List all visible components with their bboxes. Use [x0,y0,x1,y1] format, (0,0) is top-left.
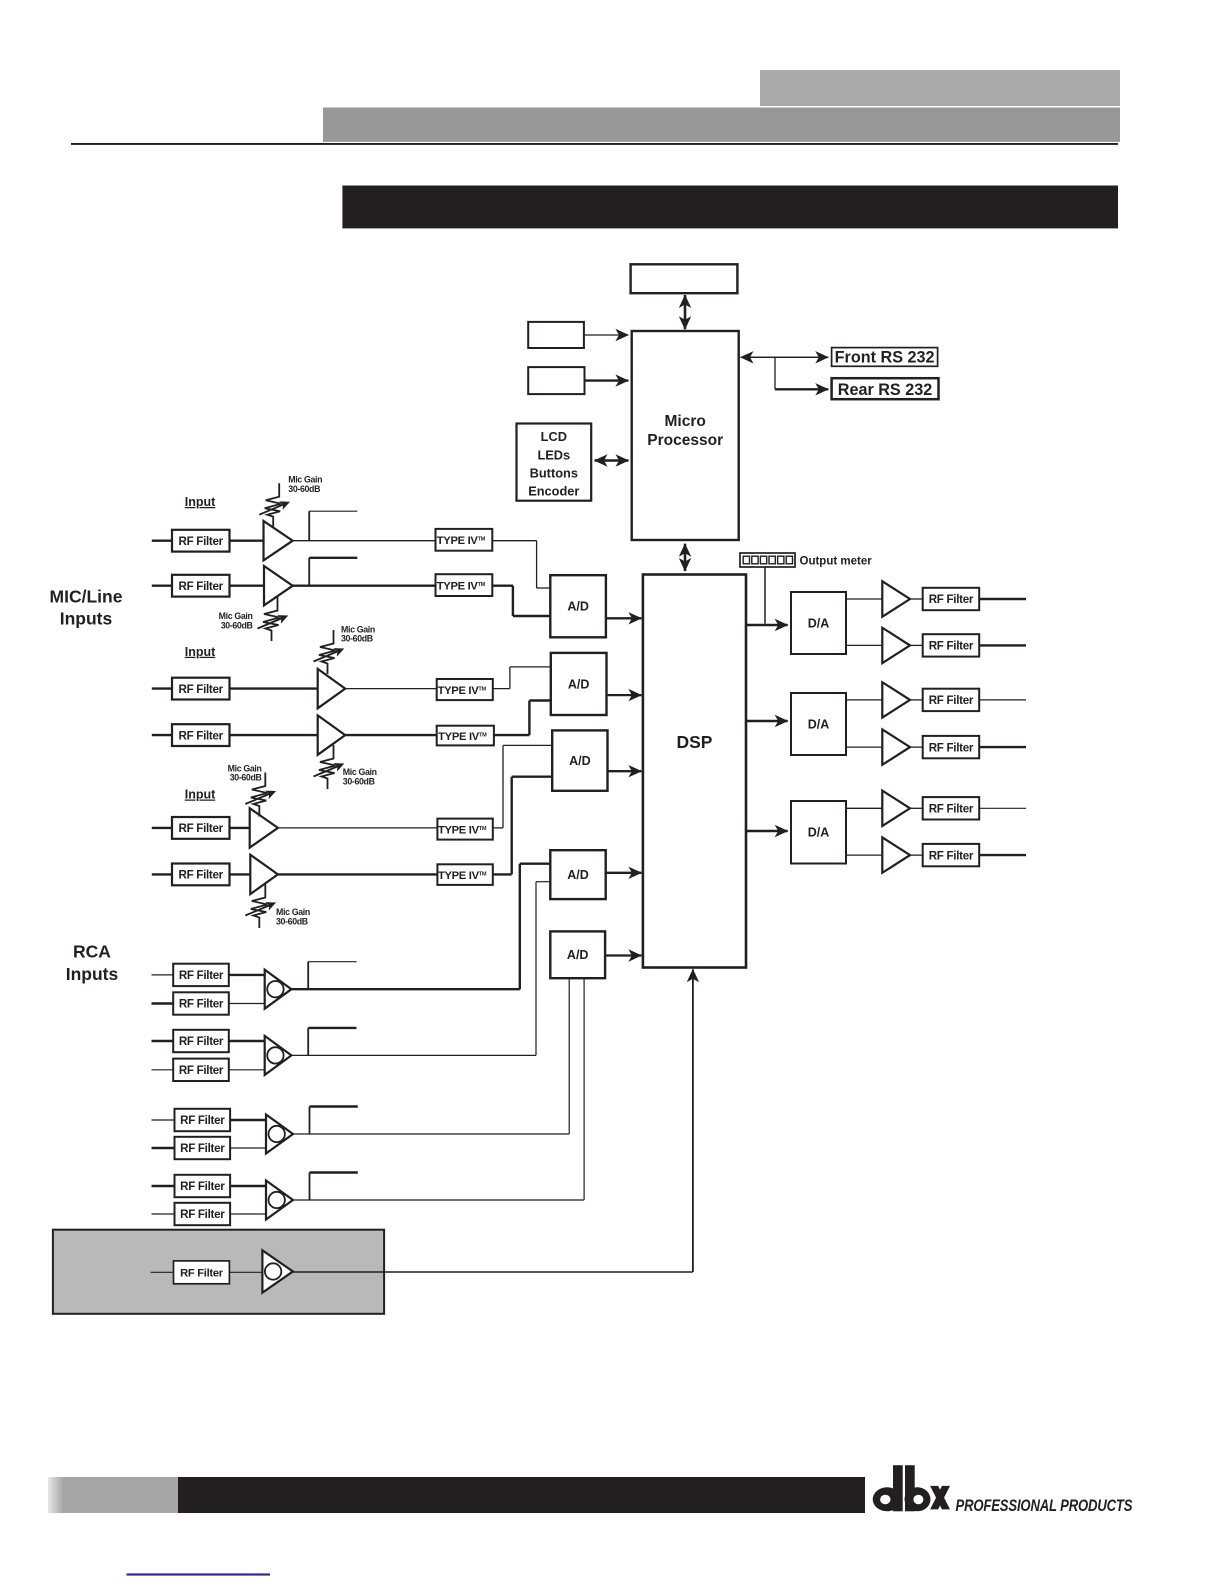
block: A/D converter 4 [550,850,605,899]
amp: output amplifier row 4 [882,729,910,764]
amp circle: RCA summing amp 3 [269,1126,285,1142]
svg-text:Input: Input [185,645,216,659]
pot: mic gain row 3 [314,630,343,674]
svg-text:RF Filter: RF Filter [180,1180,225,1193]
amp Q6: mic preamp row 6 [250,855,278,894]
svg-text:30-60dB: 30-60dB [288,484,320,494]
wire: A/D 3 to DSP arrow [608,770,642,772]
wire: insert stub horizontal RCA 4 [310,1171,358,1173]
svg-text:A/D: A/D [567,948,589,962]
block: TYPE IV converter row 2 [436,574,493,596]
block: RF Filter mic row 1 [172,530,230,552]
block: RF Filter RCA 2B [173,1059,229,1081]
wire: TYPE IV 1 out [492,540,536,542]
wire: output line row 6 [979,854,1026,856]
block: D/A converter 1 [791,592,846,654]
amp Q4: mic preamp row 4 [318,715,346,754]
wire: expansion input stub [151,1271,174,1273]
block: TYPE IV converter row 1 [436,529,493,551]
block: RF Filter RCA 3B [175,1137,231,1159]
amp circle: RCA summing amp 2 [267,1047,283,1063]
wire: RCA input stub 3B [152,1147,175,1149]
wire: DSP to D/A 1 arrow [746,624,788,626]
wire: insert stub horizontal RCA 1 [308,961,356,963]
wire: amp to RF filter row 6 [910,854,923,856]
logo: dbx b stem [905,1465,915,1511]
wire: insert stub vertical row 1 [308,511,310,541]
header medium gray bar [323,108,1120,142]
block: output RF Filter row 6 [923,844,980,866]
block: output RF Filter row 4 [923,736,980,758]
svg-text:RF Filter: RF Filter [929,593,974,606]
svg-text:A/D: A/D [569,754,591,768]
wire: insert stub horizontal row 1 [309,510,357,512]
amp: output amplifier row 3 [882,682,910,717]
wire: RCA 3 output vertical [568,978,570,1134]
wire: RCA 3B to summing amp [230,1147,266,1149]
footer black bar [178,1477,865,1513]
amp: output amplifier row 1 [882,581,910,616]
svg-text:30-60dB: 30-60dB [221,620,253,630]
wire: D/A to output amp row 1 [846,598,882,600]
wire: insert stub vertical RCA 3 [309,1107,311,1135]
wire: RCA 1A to summing amp [229,974,265,976]
wire: RCA 2 into A/D 4 [536,881,550,883]
block: TYPE IV converter row 6 [437,864,492,885]
wire: TYPE IV 5 out [493,827,503,829]
block: RF Filter RCA 4B [175,1203,231,1225]
svg-text:Buttons: Buttons [530,466,578,481]
pot: mic gain row 1 [259,483,288,527]
svg-text:LEDs: LEDs [537,448,570,463]
svg-text:RF Filter: RF Filter [179,822,224,835]
block: RF Filter RCA 1A [173,964,229,986]
wire: insert stub horizontal row 2 [309,557,357,559]
block: output RF Filter row 2 [923,634,980,656]
svg-text:30-60dB: 30-60dB [341,634,373,644]
block: Rear RS 232 [832,378,939,399]
wire: insert stub vertical row 2 [308,558,310,586]
wire: amp to TYPE IV row 4 [345,734,437,736]
amp: output amplifier row 2 [882,628,910,663]
block: RF Filter mic row 2 [172,575,230,597]
wire: TYPE IV 6 out [493,873,512,875]
wire: RS232 fork vertical [774,357,776,389]
wire: D/A to output amp row 4 [846,746,882,748]
wire: RCA 2 output [291,1054,536,1056]
wire: mic input stub row 1 [152,540,172,542]
wire: A/D 1 to DSP arrow [606,617,642,619]
svg-text:RF Filter: RF Filter [179,1035,224,1048]
svg-text:A/D: A/D [567,600,589,614]
svg-text:30-60dB: 30-60dB [276,917,308,927]
wire: RCA 3 output [293,1133,569,1135]
header black title bar [342,186,1118,229]
wire: RCA 4B to summing amp [230,1213,266,1215]
wire: RCA input stub 4A [152,1185,175,1187]
svg-text:RF Filter: RF Filter [929,849,974,862]
block: RF Filter RCA 1B [173,992,229,1014]
block: D/A converter 3 [791,801,846,864]
wire: RCA 4 output [293,1199,584,1201]
amp Q1: mic preamp row 1 [264,521,293,560]
svg-text:Input: Input [185,788,216,802]
wire: insert stub vertical RCA 1 [307,962,309,990]
svg-text:RF Filter: RF Filter [179,1064,224,1077]
wire: TYPE IV 4 out [494,734,530,736]
wire: RCA input stub 2B [152,1069,174,1071]
wire: A/D 2 to DSP arrow [607,694,642,696]
wire: expansion output [293,1271,693,1273]
wire: amp to RF filter row 4 [910,746,923,748]
svg-text:Encoder: Encoder [528,484,579,499]
wire: MP to DSP double arrow [684,544,687,571]
amp Q5: mic preamp row 5 [250,808,278,847]
block: RF Filter mic row 3 [172,678,230,700]
block: D/A converter 2 [791,693,846,755]
amp: RCA summing amp 4 [266,1181,293,1220]
wire: amp to TYPE IV row 1 [293,540,436,542]
logo: dbx d stem [893,1465,903,1511]
wire: RCA 1 output [291,988,519,990]
wire: RF filter to amp row 2 [230,585,265,587]
block: RF Filter RCA 3A [175,1109,231,1131]
wire: RCA 2 output vertical [535,882,537,1056]
svg-text:Inputs: Inputs [66,964,119,984]
svg-text:DSP: DSP [677,732,713,752]
wire: expansion RF to amp [229,1271,262,1273]
amp Q3: mic preamp row 3 [318,669,346,708]
block: top memory rectangle (unlabeled) [631,264,738,293]
svg-text:RCA: RCA [73,942,111,962]
amp circle: RCA summing amp 4 [269,1192,285,1208]
amp: output amplifier row 6 [882,837,910,872]
wire: amp to RF filter row 5 [910,807,923,809]
block: A/D converter 5 [550,931,605,978]
wire: amp to RF filter row 2 [910,644,923,646]
wire: RCA 4A to summing amp [230,1185,266,1187]
wire: mic input stub row 3 [152,687,172,689]
wire: RCA 3A to summing amp [230,1119,266,1121]
wire: DSP to D/A 2 arrow [746,720,788,722]
block: RF Filter mic row 5 [172,817,230,839]
wire: D/A to output amp row 6 [846,854,882,856]
wire: insert stub horizontal RCA 2 [308,1027,356,1029]
wire: RCA 2A to summing amp [229,1040,265,1042]
wire: LCD to MP double arrow [595,459,629,461]
svg-text:RF Filter: RF Filter [179,580,224,593]
wire: RCA input stub 1B [152,1002,174,1004]
amp: RCA summing amp 1 [265,970,292,1009]
svg-text:D/A: D/A [808,717,830,731]
wire: A/D 4 to DSP arrow [606,872,642,874]
block: expansion input gray box [53,1230,384,1314]
svg-text:A/D: A/D [567,868,589,882]
logo: dbx d bowl [873,1487,902,1511]
wire: expansion up into DSP [692,969,694,1272]
wire: output line row 2 [979,644,1026,646]
svg-text:RF Filter: RF Filter [179,998,224,1011]
wire: output line row 4 [979,746,1026,748]
svg-text:RF Filter: RF Filter [179,535,224,548]
wire: RCA input stub 2A [152,1040,174,1042]
wire: output line row 3 [979,699,1026,701]
wire: A/D 5 to DSP arrow [605,954,641,956]
svg-text:Micro: Micro [665,413,706,430]
wire: amp to TYPE IV row 5 [278,827,438,829]
svg-text:RF Filter: RF Filter [180,1268,224,1280]
amp: expansion summing amp [262,1250,293,1292]
wire: meter to DSP-DA line [764,567,766,624]
wire: RCA input stub 1A [152,974,174,976]
svg-text:RF Filter: RF Filter [180,1114,225,1127]
wire: RF filter to amp row 5 [230,827,250,829]
wire: DSP to D/A 3 arrow [746,830,788,832]
block: small box 2 (unlabeled) [528,367,584,394]
wire: box2 to MP arrow [585,379,629,381]
wire: RF filter to amp row 6 [230,873,251,875]
logo: dbx b bowl [905,1487,931,1511]
svg-text:A/D: A/D [568,677,590,691]
wire: RF filter to amp row 4 [230,734,318,736]
block: output RF Filter row 5 [923,797,980,819]
block: RF Filter mic row 4 [172,724,230,746]
wire: insert stub vertical RCA 4 [309,1173,311,1201]
wire: D/A to output amp row 2 [846,644,882,646]
footer blue link line [127,1573,271,1575]
amp: RCA summing amp 3 [266,1115,293,1154]
svg-text:RF Filter: RF Filter [180,1208,225,1221]
wire: amp to RF filter row 1 [910,598,923,600]
block: RF Filter RCA 2A [173,1030,229,1052]
wire: RCA input stub 3A [152,1119,175,1121]
wire: D/A to output amp row 3 [846,699,882,701]
wire: RCA 1 output vertical [519,864,521,990]
wire: RF filter to amp row 3 [230,687,318,689]
svg-text:MIC/Line: MIC/Line [50,587,123,607]
svg-text:Front RS 232: Front RS 232 [835,349,935,367]
svg-text:LCD: LCD [541,429,567,444]
block: small box 1 (unlabeled) [528,322,584,348]
wire: output line row 1 [979,598,1026,600]
header rule line [71,143,1118,145]
svg-text:RF Filter: RF Filter [179,869,224,882]
svg-text:Input: Input [185,495,216,509]
pot: mic gain row 5 [245,773,274,817]
svg-text:RF Filter: RF Filter [929,694,974,707]
wire: insert stub horizontal RCA 3 [310,1105,358,1107]
block: output meter LED strip [740,553,795,567]
header light gray bar [760,70,1120,106]
wire: mic input stub row 6 [152,873,172,875]
wire: amp to TYPE IV row 6 [278,873,438,875]
wire: D/A to output amp row 5 [846,807,882,809]
label: PROFESSIONAL PRODUCTS [956,1496,1133,1515]
block: TYPE IV converter row 5 [437,819,492,840]
amp circle: RCA summing amp 1 [267,981,283,997]
wire: box1 to MP arrow [584,334,629,336]
block U1 Micro Processor [632,331,739,540]
wire: mic input stub row 4 [152,734,172,736]
svg-text:30-60dB: 30-60dB [343,777,375,787]
wire: amp to TYPE IV row 3 [345,688,437,690]
wire: amp to TYPE IV row 2 [293,585,436,587]
svg-text:30-60dB: 30-60dB [230,773,262,783]
wire: amp to RF filter row 3 [910,699,923,701]
wire: RCA 2B to summing amp [229,1069,265,1071]
svg-text:Rear RS 232: Rear RS 232 [838,381,933,399]
block: A/D converter 1 [550,575,606,637]
svg-text:Output meter: Output meter [800,555,873,567]
wire: insert stub vertical RCA 2 [307,1028,309,1056]
block: RF Filter expansion [174,1261,230,1284]
amp: output amplifier row 5 [882,791,910,826]
svg-text:D/A: D/A [808,826,830,840]
block: Front RS 232 [832,348,938,367]
svg-text:PROFESSIONAL PRODUCTS: PROFESSIONAL PRODUCTS [956,1496,1133,1515]
wire: output line row 5 [979,807,1026,809]
block U2 DSP [643,575,746,968]
amp: RCA summing amp 2 [265,1036,292,1075]
wire: RF filter to amp row 1 [230,540,264,542]
svg-text:RF Filter: RF Filter [929,741,974,754]
block: TYPE IV converter row 4 [437,726,494,746]
svg-text:RF Filter: RF Filter [179,729,224,742]
wire: fork to Rear RS232 arrow [775,388,828,390]
wire: TYPE IV 3 out [493,688,510,690]
wire: TYPE IV 2 out [492,585,513,587]
block: output RF Filter row 3 [923,689,980,711]
svg-text:D/A: D/A [808,616,830,630]
wire: MP to RS232 left arrow [741,356,819,358]
block: output RF Filter row 1 [923,588,980,610]
svg-text:Processor: Processor [647,432,723,449]
block: A/D converter 2 [551,653,607,715]
wire: RCA 1 into A/D 4 [520,863,551,865]
amp circle: expansion amp [265,1263,281,1279]
svg-text:Inputs: Inputs [60,609,113,629]
svg-text:RF Filter: RF Filter [179,969,224,982]
block: A/D converter 3 [552,730,607,790]
svg-text:RF Filter: RF Filter [180,1142,225,1155]
pot: mic gain row 6 [245,884,274,928]
block: LCD LEDs Buttons Encoder [517,424,592,501]
wire: mic input stub row 2 [152,585,172,587]
wire: mic input stub row 5 [152,827,172,829]
svg-text:RF Filter: RF Filter [929,803,974,816]
svg-text:RF Filter: RF Filter [929,640,974,653]
wire: double arrow top rect to Micro Processor [684,295,687,329]
svg-text:RF Filter: RF Filter [179,683,224,696]
pot: mic gain row 4 [314,745,343,789]
block: RF Filter RCA 4A [175,1175,231,1197]
logo: dbx x [930,1486,950,1510]
wire: RCA 4 output vertical [583,978,585,1200]
block: TYPE IV converter row 3 [437,679,493,700]
pot: mic gain row 2 [258,597,287,641]
wire: RCA input stub 4B [152,1213,175,1215]
block: RF Filter mic row 6 [172,864,230,886]
wire: RCA 1B to summing amp [229,1003,265,1005]
amp Q2: mic preamp row 2 [264,566,293,605]
